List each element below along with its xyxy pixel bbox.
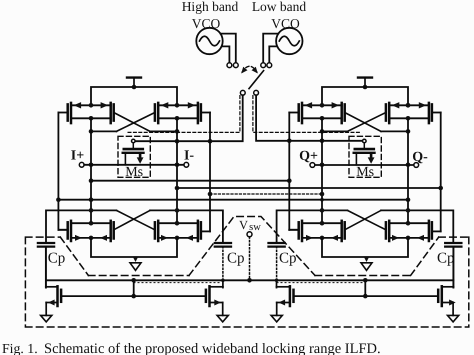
Low band VCO source [276,28,302,54]
wire drain bus left-b [150,129,179,134]
switch pole contact right [254,90,259,95]
transistor pair M13-M14 (cross-coupled NMOS right block) [289,221,344,241]
wire high-band VCO to switch contacts [221,34,236,63]
wire bottom bus left-b [150,208,223,243]
svg-text:Ms: Ms [356,165,374,180]
wire drain bus right-b [381,129,410,134]
svg-text:High band: High band [182,0,239,14]
switch contact b1 [261,63,266,68]
dashed outline horizontals [88,275,410,277]
svg-text:Fig. 1.: Fig. 1. [2,341,38,355]
wire rail B [89,118,94,223]
switch contact a2 [233,63,238,68]
wire coupling bus 2 [177,187,441,189]
dashed tent over Vsw [189,217,315,276]
VDD supply T right [358,78,372,90]
wire injection right (switch to Ms2 gate) [256,95,363,143]
wire tail gate line right [294,280,439,298]
capacitor Cp4 [437,243,461,288]
svg-text:Cp: Cp [48,251,66,267]
wire gate rail A2 [287,113,299,230]
wire rail C [175,118,180,223]
svg-text:V: V [239,218,248,232]
transistor pair M9-M10 (cross-coupled NMOS left block) [58,221,113,241]
wire bottom rail [46,278,453,283]
wire injection left (switch to Ms1 gate) [135,95,243,143]
svg-text:I+: I+ [71,149,84,164]
caption Fig. 1 [2,341,381,355]
tail transistor Mt1 with ground [41,247,62,322]
wire bottom bus right-b [381,208,453,243]
node I- [184,149,194,168]
ground left-center [130,256,141,270]
svg-text:Q+: Q+ [299,149,318,164]
cross-coupling X left top [114,113,155,132]
label Low band VCO [252,0,307,31]
cross-coupling X left bottom [114,210,155,229]
dashed control line left [128,96,240,133]
switch contact b2 [267,63,272,68]
switch contact a1 [227,63,232,68]
wire coupling bus 1 [91,180,289,182]
wire top rail left [91,87,177,105]
wire bottom bus left-a [46,208,116,243]
switch pole contact left [240,90,245,95]
dashed outline diagonals [60,237,438,275]
wire bottom bus right-a [277,208,348,243]
transistor pair M15-M16 (cross-coupled NMOS right block) [386,221,441,241]
node Q+ [299,149,318,167]
VDD supply T left [127,78,141,90]
svg-text:Cp: Cp [227,251,245,267]
dashed control line right [253,96,360,133]
capacitor Cp1 [38,243,65,288]
label High band VCO [182,0,239,31]
svg-text:Schematic of the proposed wide: Schematic of the proposed wideband locki… [44,341,381,355]
node Vsw [239,218,261,282]
wire drain bus left-a [89,129,117,134]
wire Q+ to Q- [315,164,414,166]
transistor pair M11-M12 (cross-coupled NMOS left block) [155,221,210,241]
transistor pair M3-M4 (cross-coupled PMOS left block) [155,102,210,123]
tail transistor Mt4 with ground [438,247,459,322]
injection transistor Ms2 in dashed box [349,136,381,180]
wire I+ to I- [84,164,184,166]
svg-text:Cp: Cp [437,251,455,267]
capacitor Cp3 [269,243,297,280]
dotted node line [134,282,365,284]
wire sources to tail right [322,238,408,257]
node I+ [71,149,84,168]
dashed outline rectangle [25,237,468,327]
wire tail gate line left [61,280,206,298]
node Q- [412,150,428,167]
wire low-band VCO to switch contacts [263,34,278,63]
ground right-center [361,256,372,270]
svg-text:Q-: Q- [412,150,428,165]
wire rail D [208,113,213,232]
wire drain bus right-a [320,129,348,134]
transistor pair M1-M2 (cross-coupled PMOS left block) [58,102,113,123]
injection transistor Ms1 in dashed box [118,136,150,180]
wire coupling bus 4 [58,199,408,201]
tail transistor Mt3 with ground [271,280,293,322]
wire gate rail A [56,113,68,230]
svg-text:Ms: Ms [125,165,143,180]
wire rail D2 [438,113,443,232]
High band VCO source [196,28,222,54]
wire sources to tail left [91,238,177,257]
tail transistor Mt2 with ground [206,280,228,322]
wire coupling bus 3 (dashed) [210,193,322,195]
cross-coupling X right bottom [345,210,386,229]
svg-text:Low band: Low band [252,0,307,14]
wire top rail right [322,87,408,105]
svg-text:I-: I- [184,149,194,164]
switch selector dashed arc [241,66,258,73]
svg-text:Cp: Cp [279,251,297,267]
transistor pair M5-M6 (cross-coupled PMOS right block) [289,102,344,123]
capacitor Cp2 [215,243,245,280]
switch lever [249,71,264,89]
transistor pair M7-M8 (cross-coupled PMOS right block) [386,102,441,123]
wire rail C2 [406,103,411,223]
wire rail B2 [320,118,325,223]
cross-coupling X right top [345,113,386,132]
